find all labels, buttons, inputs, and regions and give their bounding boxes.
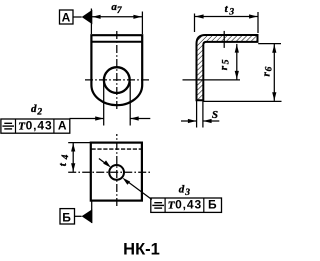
S extension right xyxy=(202,101,204,128)
vertical centerline xyxy=(116,134,118,208)
datum A triangle xyxy=(82,10,93,25)
hole d3 xyxy=(109,165,124,180)
S extension left xyxy=(196,101,198,128)
svg-text:A: A xyxy=(62,10,71,24)
hole d2 xyxy=(104,67,130,93)
S arrow left xyxy=(188,119,197,123)
datum A box xyxy=(60,10,74,24)
svg-text:НК-1: НК-1 xyxy=(123,240,160,258)
bend line xyxy=(91,41,142,43)
svg-text:d: d xyxy=(31,103,37,115)
svg-text:Б: Б xyxy=(208,198,217,212)
a7 dimension line xyxy=(92,16,143,18)
t3 extension left xyxy=(194,14,196,33)
d3 leader upper arrow xyxy=(103,160,111,167)
d2 dimension line right xyxy=(130,118,150,120)
t4 arrow top xyxy=(71,143,75,152)
d3 leader upper segment xyxy=(99,159,108,166)
S dimension line left xyxy=(181,120,196,122)
t3 arrow left xyxy=(195,14,204,18)
horizontal centerline xyxy=(85,79,151,81)
t3 dimension line xyxy=(195,16,258,18)
t3 arrow right xyxy=(249,14,258,18)
datum A leader xyxy=(73,16,82,18)
t3 extension right xyxy=(257,12,259,33)
a7 extension right xyxy=(141,12,143,35)
tolerance frame 2 xyxy=(151,198,222,212)
r6 arrow bottom xyxy=(272,92,276,101)
a7 arrow left xyxy=(92,15,101,19)
svg-text:d: d xyxy=(179,184,185,196)
L-profile section xyxy=(197,35,258,100)
t4 arrow bottom xyxy=(71,163,75,172)
svg-text:Б: Б xyxy=(62,210,71,224)
horizontal centerline xyxy=(68,171,152,173)
svg-text:A: A xyxy=(58,118,67,132)
datum B leader xyxy=(75,215,82,217)
svg-text:0,43: 0,43 xyxy=(26,118,53,132)
r5 arrow bottom xyxy=(235,71,239,80)
d2 arrow right xyxy=(130,116,139,120)
d2 extension right xyxy=(129,82,131,126)
r6 bottom extension xyxy=(203,100,281,102)
svg-text:3: 3 xyxy=(228,8,234,18)
d2 extension left xyxy=(103,82,105,126)
hole axis tick xyxy=(223,31,225,48)
a7 extension left xyxy=(90,9,92,35)
t4 dimension line xyxy=(72,143,74,172)
S dimension line right xyxy=(203,120,219,122)
side centerline xyxy=(183,79,241,81)
vertical centerline xyxy=(116,31,118,110)
datum B box xyxy=(60,209,75,224)
bracket outline xyxy=(91,35,142,105)
tolerance frame 1 xyxy=(1,119,70,133)
t4 top extension xyxy=(68,142,90,144)
svg-text:6: 6 xyxy=(265,66,275,71)
svg-text:2: 2 xyxy=(36,108,42,118)
d2 dimension line left xyxy=(70,118,104,120)
svg-text:0,43: 0,43 xyxy=(175,198,202,212)
d3 leader lower arrow xyxy=(122,178,130,185)
symmetry symbol 1 xyxy=(2,123,14,129)
r5 arrow top xyxy=(235,44,239,53)
svg-text:S: S xyxy=(212,109,218,121)
r5 dimension line xyxy=(236,44,238,80)
d3 leader lower segment xyxy=(126,180,152,200)
r6 dimension line xyxy=(273,44,275,101)
d2 arrow left xyxy=(95,116,104,120)
plate outline xyxy=(91,143,142,201)
svg-text:r: r xyxy=(218,65,230,70)
S arrow right xyxy=(203,119,212,123)
svg-text:5: 5 xyxy=(222,59,232,64)
datum B extension line xyxy=(91,201,93,223)
a7 arrow right xyxy=(133,15,142,19)
symmetry symbol 2 xyxy=(152,203,164,208)
r6 arrow top xyxy=(272,44,276,53)
svg-text:4: 4 xyxy=(61,154,71,160)
datum B triangle xyxy=(82,209,93,223)
r6 top extension xyxy=(258,43,281,45)
hidden line xyxy=(92,148,142,150)
